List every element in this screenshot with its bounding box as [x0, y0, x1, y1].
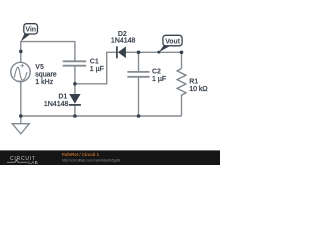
svg-text:PafeRot / Circuit 1: PafeRot / Circuit 1 [62, 152, 100, 157]
svg-text:Vin: Vin [25, 27, 36, 34]
svg-text:1N4148: 1N4148 [111, 37, 136, 44]
D2 label [111, 31, 136, 45]
C1 label [90, 59, 104, 73]
svg-text:C1: C1 [90, 59, 99, 66]
R1 label [189, 79, 207, 94]
diode D1 [69, 94, 81, 105]
resistor R1 [177, 69, 186, 97]
wire: node A run from C1 bottom up to D2 cathode [75, 52, 116, 84]
svg-text:1 kHz: 1 kHz [35, 79, 53, 86]
C2 label [152, 69, 166, 83]
wire: ground rail [21, 115, 182, 117]
svg-text:V5: V5 [35, 64, 44, 71]
junction dot ground rail left [19, 114, 23, 118]
svg-text:R1: R1 [189, 79, 198, 86]
svg-text:D1: D1 [58, 93, 67, 100]
wire: V5 bottom lead to ground rail [20, 82, 22, 116]
wire: D2 anode to right rail and down to R1 [126, 52, 182, 116]
svg-text:http://circuitlab.com/cat/4bba: http://circuitlab.com/cat/4bbabh5gd8 [62, 159, 120, 163]
wire: C2 leads [138, 52, 140, 116]
ground [12, 116, 29, 134]
capacitor C1 [63, 61, 86, 65]
svg-text:C2: C2 [152, 69, 161, 76]
node Vout flag [157, 35, 182, 53]
junction dot C2 bottom [137, 114, 141, 118]
wire: D1 leads [74, 84, 76, 116]
svg-text:Vout: Vout [165, 38, 181, 45]
svg-text:1 µF: 1 µF [90, 66, 104, 73]
junction dot D1 bottom [73, 114, 77, 118]
junction dot V5 top terminal [19, 50, 23, 54]
D1 label [44, 93, 69, 108]
V5 label [35, 64, 57, 86]
svg-text:1 µF: 1 µF [152, 76, 166, 83]
junction dot C2 top [137, 51, 141, 55]
svg-text:10 kΩ: 10 kΩ [189, 86, 207, 93]
svg-text:1N4148: 1N4148 [44, 101, 69, 108]
capacitor C2 [127, 72, 149, 77]
junction dot node A [73, 82, 77, 86]
wire: top run from Vin corner to C1 [21, 42, 75, 63]
svg-text:square: square [35, 71, 57, 78]
node Vin flag [21, 24, 38, 42]
voltage source V5 [11, 62, 30, 81]
diode D2 [117, 46, 126, 58]
junction dot R1 top corner [180, 51, 184, 55]
footer CircuitLab logo [10, 156, 38, 165]
svg-text:LAB: LAB [28, 160, 38, 165]
footer bar [0, 150, 220, 165]
